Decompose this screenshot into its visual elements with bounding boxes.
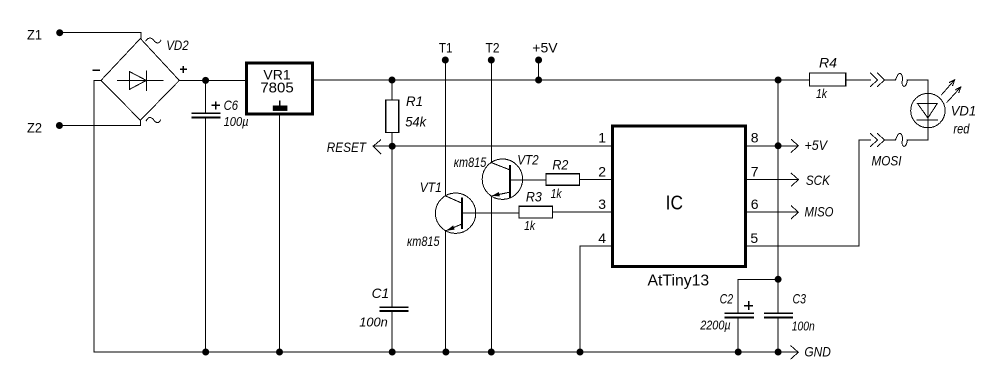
svg-text:T2: T2	[486, 39, 500, 55]
svg-text:R1: R1	[406, 93, 423, 109]
svg-text:кт815: кт815	[407, 233, 440, 249]
svg-text:GND: GND	[804, 344, 831, 360]
svg-text:RESET: RESET	[327, 139, 367, 155]
svg-text:1k: 1k	[524, 218, 536, 233]
svg-text:T1: T1	[439, 39, 453, 55]
svg-text:2200µ: 2200µ	[699, 319, 730, 333]
svg-text:100n: 100n	[359, 314, 388, 329]
svg-text:4: 4	[598, 230, 606, 246]
svg-text:VD1: VD1	[951, 102, 977, 118]
svg-text:C1: C1	[372, 285, 390, 301]
svg-text:R3: R3	[526, 189, 542, 205]
svg-text:кт815: кт815	[454, 154, 487, 170]
svg-text:54k: 54k	[405, 113, 427, 129]
svg-text:+5V: +5V	[532, 39, 558, 55]
svg-text:1k: 1k	[551, 186, 563, 201]
svg-text:5: 5	[750, 230, 758, 246]
svg-text:Z1: Z1	[27, 27, 42, 43]
svg-text:100µ: 100µ	[224, 115, 249, 129]
svg-text:1: 1	[598, 130, 606, 146]
svg-text:VT2: VT2	[517, 151, 539, 167]
svg-text:100n: 100n	[792, 319, 815, 333]
svg-text:C2: C2	[720, 291, 734, 307]
svg-text:7: 7	[751, 163, 759, 179]
svg-text:+5V: +5V	[805, 137, 829, 153]
svg-text:1k: 1k	[816, 86, 828, 101]
svg-text:Z2: Z2	[27, 120, 42, 136]
svg-text:SCK: SCK	[806, 172, 831, 188]
svg-text:6: 6	[751, 196, 759, 212]
svg-text:7805: 7805	[260, 79, 293, 96]
svg-text:8: 8	[751, 130, 759, 146]
svg-text:VT1: VT1	[420, 179, 442, 195]
svg-text:AtTiny13: AtTiny13	[648, 272, 710, 289]
svg-text:R2: R2	[552, 157, 568, 173]
svg-text:C3: C3	[793, 291, 807, 307]
svg-text:red: red	[953, 121, 970, 137]
svg-text:3: 3	[598, 196, 606, 212]
svg-text:IC: IC	[666, 192, 683, 214]
svg-text:R4: R4	[819, 54, 837, 70]
svg-text:MISO: MISO	[805, 203, 834, 219]
svg-text:VD2: VD2	[166, 37, 189, 53]
svg-text:2: 2	[598, 163, 606, 179]
svg-text:MOSI: MOSI	[872, 153, 902, 169]
svg-text:C6: C6	[224, 97, 239, 113]
